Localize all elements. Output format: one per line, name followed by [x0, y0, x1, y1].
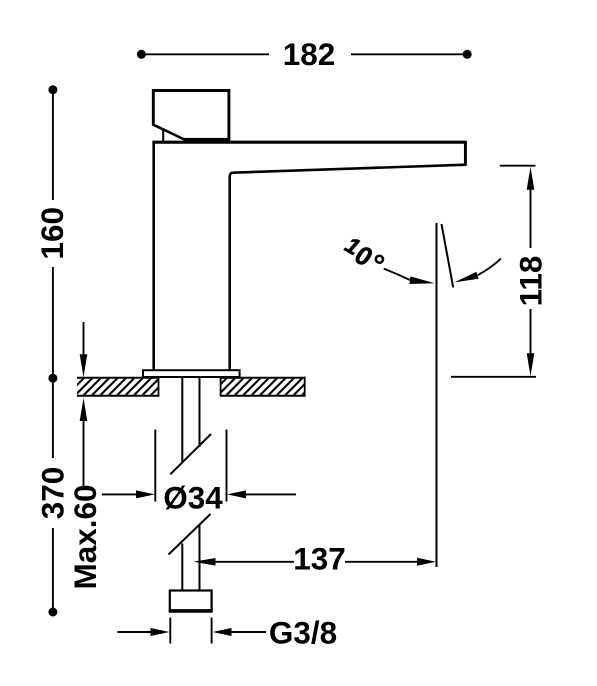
svg-text:160: 160 — [34, 207, 70, 260]
svg-text:Max.60: Max.60 — [67, 484, 103, 589]
svg-text:137: 137 — [293, 541, 346, 577]
svg-text:370: 370 — [35, 467, 71, 520]
svg-text:Ø34: Ø34 — [163, 480, 223, 516]
svg-text:182: 182 — [283, 36, 336, 72]
svg-text:G3/8: G3/8 — [269, 615, 337, 651]
svg-text:118: 118 — [513, 256, 549, 307]
